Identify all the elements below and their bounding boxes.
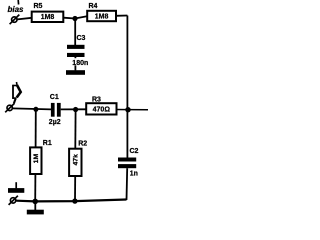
wire R1 to bottom rail <box>34 174 36 201</box>
junction node D (right rail) <box>125 107 130 112</box>
ground (C3) <box>66 70 85 75</box>
wire node B down to R1 <box>35 109 37 147</box>
wire node C down to R2 <box>74 110 76 149</box>
svg-text:R2: R2 <box>78 140 87 147</box>
input continuation arrow <box>12 82 20 103</box>
svg-text:470Ω: 470Ω <box>93 107 111 114</box>
terminal ground (circle with slash) <box>9 196 18 205</box>
ground (bottom rail) <box>27 204 44 215</box>
svg-text:C2: C2 <box>130 148 139 155</box>
wire node A down to C3 <box>74 19 76 46</box>
capacitor C2 plates <box>118 158 136 169</box>
junction node A (bias divider / C3) <box>72 16 77 21</box>
wire input terminal to C1 <box>13 108 51 109</box>
capacitor C1 plates <box>51 103 61 117</box>
terminal input (circle with slash) <box>5 103 14 112</box>
svg-text:1M: 1M <box>33 154 40 164</box>
wire bottom rail <box>16 200 126 202</box>
wire stub top-left (cropped arrow tail) <box>17 0 19 5</box>
wire bias terminal to R5 <box>17 18 32 20</box>
wire C2 to bottom rail <box>126 168 129 200</box>
wire right vertical rail <box>126 16 128 158</box>
capacitor C3 plates <box>67 45 85 57</box>
C3 value 180n <box>72 58 94 65</box>
resistor R1 1M <box>30 147 41 174</box>
terminal bias (circle with slash) <box>10 15 20 25</box>
svg-text:C1: C1 <box>50 94 59 101</box>
svg-text:R4: R4 <box>89 3 98 10</box>
wire C1 to R3 <box>61 108 86 110</box>
junction node F (R2 bottom) <box>72 198 77 203</box>
wire R3 to right edge <box>117 109 149 111</box>
junction node C (R2 top) <box>73 107 78 112</box>
svg-text:180n: 180n <box>72 60 88 67</box>
wire R5 to R4 <box>64 16 88 18</box>
svg-text:R5: R5 <box>34 3 43 10</box>
svg-text:C3: C3 <box>77 35 86 42</box>
resistor R4 1M8 <box>87 11 116 21</box>
ground (above left terminal) <box>8 182 24 193</box>
junction node E (R1 bottom) <box>32 199 38 205</box>
svg-text:2µ2: 2µ2 <box>49 119 61 126</box>
junction node B (R1 top) <box>33 107 38 112</box>
resistor R2 47k <box>69 149 81 176</box>
wire C3 to ground <box>74 57 76 70</box>
svg-text:1M8: 1M8 <box>95 13 109 20</box>
svg-text:1M8: 1M8 <box>41 14 55 21</box>
resistor R3 470ohm <box>86 103 116 114</box>
svg-text:1n: 1n <box>130 170 138 177</box>
wire R4 to right rail corner <box>116 15 127 17</box>
svg-text:47k: 47k <box>73 154 80 166</box>
resistor R5 1M8 <box>32 12 64 22</box>
svg-text:R1: R1 <box>43 140 52 147</box>
svg-text:bias: bias <box>8 5 25 14</box>
wire R2 to bottom rail <box>74 176 76 201</box>
